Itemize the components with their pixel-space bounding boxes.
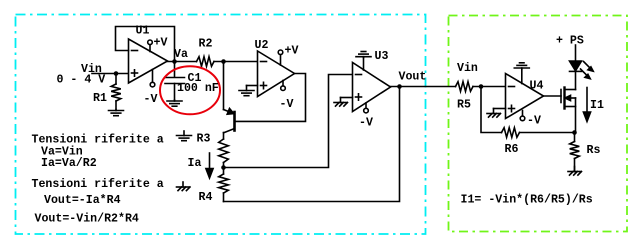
- svg-text:Ia: Ia: [188, 157, 202, 170]
- op-amp U2: [258, 51, 295, 97]
- svg-text:I1: I1: [590, 99, 604, 112]
- pin U3 -V: [365, 103, 367, 108]
- node Va: [172, 59, 177, 64]
- wire U3 output / Vout: [391, 86, 456, 88]
- resistor R3: [219, 139, 229, 163]
- node Vout: [397, 84, 402, 89]
- node R2-emitter junction: [221, 59, 226, 64]
- current arrow I1: [586, 88, 588, 114]
- ground (inline earth, text row 1): [183, 131, 185, 136]
- wire U3 plus input: [341, 97, 353, 99]
- svg-text:I1= -Vin*(R6/R5)/Rs: I1= -Vin*(R6/R5)/Rs: [461, 194, 593, 207]
- svg-text:Vout=-Ia*R4: Vout=-Ia*R4: [44, 194, 121, 207]
- svg-text:U1: U1: [136, 25, 150, 38]
- svg-text:-V: -V: [144, 93, 158, 106]
- wire U4 plus input: [494, 108, 506, 110]
- resistor R2: [197, 57, 215, 67]
- op-amp U1: [129, 39, 168, 83]
- svg-text:Rs: Rs: [587, 144, 601, 157]
- wire R2 to U2: [214, 61, 258, 63]
- ground (U4 plus, chassis): [493, 109, 495, 114]
- svg-text:-V: -V: [527, 115, 541, 128]
- svg-text:R2: R2: [199, 38, 213, 51]
- pin U2 +V: [280, 55, 282, 65]
- svg-text:R3: R3: [197, 133, 211, 146]
- left circuit boundary (cyan dash-dot): [16, 15, 426, 235]
- highlight ellipse around C1: [160, 66, 220, 114]
- svg-text:100 nF: 100 nF: [177, 82, 219, 95]
- ground (inline chassis, text row 4): [182, 182, 184, 187]
- wire R6 feedback: [481, 87, 502, 133]
- pin U2 -V: [282, 81, 284, 86]
- wire R5 to U4 minus: [473, 86, 506, 88]
- op-amp U3: [353, 63, 391, 112]
- transistor M1 (NMOS): [560, 90, 562, 103]
- node R3-R4 junction: [221, 165, 226, 170]
- ground (U4 top, earth up): [521, 69, 523, 84]
- wire U1 output: [168, 61, 197, 63]
- svg-text:R1: R1: [93, 92, 107, 105]
- svg-text:U3: U3: [375, 50, 389, 63]
- resistor R5: [456, 82, 474, 92]
- resistor R6: [502, 128, 520, 138]
- wire U2 output feedback to Q1 base: [236, 74, 306, 122]
- ground (R1): [115, 110, 117, 111]
- pin U4 -V: [522, 111, 524, 117]
- svg-text:-V: -V: [280, 98, 294, 111]
- wire R4 to Vout feedback: [224, 87, 400, 202]
- svg-text:Vout: Vout: [399, 71, 427, 84]
- resistor R4: [223, 168, 225, 175]
- svg-text:Vin: Vin: [457, 62, 478, 75]
- LED PS: [575, 45, 577, 61]
- svg-text:+V: +V: [154, 37, 168, 50]
- wire U1 feedback: [116, 27, 175, 62]
- svg-text:+ PS: + PS: [556, 35, 584, 48]
- ground (Rs, chassis): [574, 167, 576, 172]
- svg-text:Ia=Va/R2: Ia=Va/R2: [41, 157, 97, 170]
- svg-text:R5: R5: [457, 99, 471, 112]
- pin U1 +V: [149, 45, 151, 52]
- svg-text:-V: -V: [359, 117, 373, 130]
- svg-text:Va: Va: [174, 48, 188, 61]
- ground (U3 top, earth up): [363, 58, 365, 71]
- pin U1 -V: [152, 70, 154, 83]
- transistor Q1 (PNP): [223, 62, 225, 110]
- current arrow Ia: [209, 153, 211, 170]
- ground (C1): [174, 100, 176, 101]
- wire junction to U3 minus: [224, 75, 353, 168]
- svg-text:0 - 4 V: 0 - 4 V: [57, 74, 106, 87]
- resistor R1: [115, 74, 117, 85]
- svg-text:R6: R6: [505, 143, 519, 156]
- wire R6 to source node: [520, 132, 575, 134]
- svg-text:+V: +V: [285, 45, 299, 58]
- wire U2 plus input: [247, 85, 258, 87]
- LED emission arrows: [584, 62, 591, 69]
- ground (U2 plus): [246, 86, 248, 91]
- wire Vin input: [92, 73, 129, 75]
- op-amp U4: [506, 74, 544, 119]
- svg-text:U4: U4: [530, 80, 544, 93]
- resistor Rs: [574, 133, 576, 142]
- node source-R6-Rs junction: [572, 130, 577, 135]
- svg-text:U2: U2: [255, 39, 269, 52]
- right circuit boundary (green dashed): [449, 16, 628, 232]
- node Vin junction: [114, 71, 119, 76]
- capacitor C1: [174, 62, 176, 78]
- wire U4 output to gate: [544, 95, 562, 97]
- svg-text:Tensioni riferite a: Tensioni riferite a: [32, 178, 164, 191]
- svg-text:Vout=-Vin/R2*R4: Vout=-Vin/R2*R4: [35, 213, 139, 226]
- node R5-R6 junction: [479, 84, 484, 89]
- svg-text:R4: R4: [199, 191, 213, 204]
- ground (U3 plus, chassis): [340, 98, 342, 103]
